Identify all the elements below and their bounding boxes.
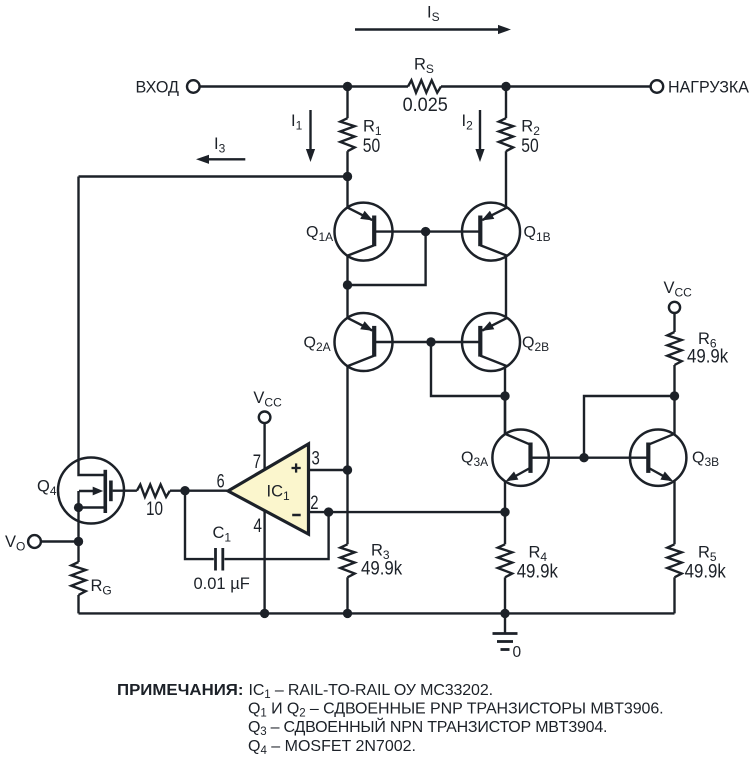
wire C1 left branch	[185, 491, 214, 559]
transistor Q4 gate bar	[109, 481, 113, 502]
node Q2B collector junction	[500, 391, 509, 400]
svg-text:0.01 µF: 0.01 µF	[194, 575, 250, 593]
wire Q2 bases	[374, 341, 481, 343]
transistor Q1B body	[462, 203, 520, 261]
wire input to RS	[200, 85, 408, 87]
op-amp plus sign	[292, 463, 301, 472]
wire R3 bottom lead	[346, 577, 348, 613]
wire Q2B to Q3A collector	[504, 396, 506, 435]
svg-text:НАГРУЗКА: НАГРУЗКА	[668, 78, 750, 97]
transistor Q2B body	[462, 313, 520, 371]
wire Q3A emitter to R4	[504, 512, 506, 544]
svg-text:49.9k: 49.9k	[687, 346, 729, 367]
transistor Q3B bar	[646, 443, 650, 473]
svg-text:3: 3	[312, 449, 320, 470]
transistor Q4 channel bar	[104, 470, 108, 513]
svg-text:I1: I1	[291, 112, 303, 133]
transistor Q4 source arrow	[79, 487, 103, 496]
terminal VCC (op-amp)	[259, 412, 271, 424]
node Q2 base junction	[426, 337, 435, 346]
svg-text:ПРИМЕЧАНИЯ:: ПРИМЕЧАНИЯ:	[117, 682, 244, 699]
svg-text:Q2B: Q2B	[522, 335, 549, 355]
wire R2 top lead	[505, 87, 507, 119]
svg-text:Q3A: Q3A	[461, 449, 488, 469]
resistor R3	[340, 544, 354, 577]
node Q1 base junction	[421, 227, 430, 236]
svg-text:49.9k: 49.9k	[517, 562, 559, 583]
svg-text:I2: I2	[462, 112, 474, 133]
wire R6 to Q3B collector	[673, 365, 675, 435]
transistor Q2B emitter	[482, 318, 508, 331]
transistor Q1B bar	[478, 216, 482, 247]
wire RG top lead	[77, 542, 79, 563]
wire Q2A collector down	[346, 365, 348, 544]
node R3 rail junction	[343, 609, 352, 618]
transistor Q4 source link	[79, 491, 106, 508]
wire Q1A collector down	[346, 255, 348, 286]
svg-text:Q1B: Q1B	[524, 224, 551, 244]
capacitor C1	[216, 548, 223, 571]
wire pin6 output	[170, 490, 229, 492]
resistor R2	[499, 118, 513, 151]
transistor Q1B emitter	[482, 207, 508, 220]
wire VO to RG	[41, 540, 79, 542]
transistor Q2A collector	[347, 356, 374, 367]
transistor Q1A emitter	[347, 207, 373, 220]
node I3-R1 junction	[343, 172, 352, 181]
svg-text:Q3 – СДВОЕННЫЙ NPN ТРАНЗИСТОР: Q3 – СДВОЕННЫЙ NPN ТРАНЗИСТОР MBT3904.	[248, 717, 607, 738]
node Q3A emitter junction	[500, 507, 509, 516]
transistor Q3A body	[492, 430, 548, 486]
svg-text:6: 6	[217, 472, 225, 493]
svg-text:VCC: VCC	[253, 389, 282, 410]
wire I3 horizontal	[79, 175, 348, 177]
op-amp IC1	[228, 444, 309, 534]
wire gate lead	[113, 490, 137, 492]
svg-text:4: 4	[253, 516, 262, 537]
svg-text:RS: RS	[414, 56, 434, 77]
svg-text:50: 50	[521, 136, 538, 157]
transistor Q1A body	[335, 203, 393, 261]
wire ground rail	[79, 612, 675, 614]
terminal NAGRUZKA (load)	[651, 80, 664, 93]
wire Q3 base to Q3B collector	[584, 396, 675, 458]
node C1 to pin2 junction	[324, 507, 333, 516]
node Q1A collector junction	[343, 280, 352, 289]
svg-text:Q3B: Q3B	[692, 449, 719, 469]
wire op-amp pin7 pin4 supply	[263, 423, 265, 613]
svg-text:VCC: VCC	[664, 279, 693, 300]
resistor R4	[498, 544, 512, 577]
svg-text:IS: IS	[427, 4, 440, 25]
svg-text:I3: I3	[214, 135, 226, 156]
svg-text:0.025: 0.025	[403, 95, 448, 116]
svg-text:C1: C1	[213, 524, 232, 545]
wire left branch down to Q4 drain	[79, 177, 106, 476]
wire Q2 base to Q2B collector loop	[431, 342, 505, 396]
current arrow I3	[196, 155, 245, 164]
svg-text:50: 50	[363, 136, 380, 157]
node output junction	[180, 486, 189, 495]
terminal VO	[28, 535, 41, 548]
resistor RG	[71, 562, 85, 595]
transistor Q3A bar	[528, 443, 532, 473]
wire C1 right branch	[224, 512, 328, 559]
terminal VCC (right)	[669, 302, 680, 313]
transistor Q2A body	[335, 313, 393, 371]
ground	[493, 613, 518, 649]
transistor Q2B bar	[478, 326, 482, 357]
wire R4 bottom lead	[504, 577, 506, 613]
node R6-Q3B junction	[670, 391, 679, 400]
resistor R5	[667, 544, 681, 577]
wire Q1B collector down	[505, 255, 507, 319]
svg-text:49.9k: 49.9k	[361, 559, 403, 580]
wire R1 top lead	[346, 87, 348, 119]
wire VCC to R6	[673, 313, 675, 332]
wire R2 bottom lead	[505, 151, 507, 208]
node RS-R2 junction	[501, 82, 510, 91]
svg-text:0: 0	[513, 644, 522, 661]
resistor R1	[340, 118, 354, 151]
transistor Q4 body	[58, 458, 124, 524]
wire Q4 source down	[77, 508, 79, 542]
node pin4 rail junction	[260, 609, 269, 618]
transistor Q1B collector	[480, 245, 507, 256]
svg-text:7: 7	[253, 452, 261, 473]
transistor Q1A collector	[347, 245, 374, 256]
op-amp minus sign	[292, 514, 301, 517]
wire Q1A emitter up	[346, 177, 348, 209]
current arrow I2	[475, 110, 484, 162]
wire R1 bottom lead	[346, 151, 348, 176]
wire RG bottom lead	[77, 595, 79, 613]
wire Q3A emitter down	[504, 481, 506, 513]
svg-text:RG: RG	[91, 577, 112, 598]
current arrow I1	[306, 110, 315, 162]
transistor Q2A emitter	[347, 318, 373, 331]
svg-text:Q2A: Q2A	[304, 335, 331, 355]
node Q3 base junction	[579, 453, 588, 462]
transistor Q3B collector	[650, 434, 675, 444]
svg-text:Q4 – MOSFET 2N7002.: Q4 – MOSFET 2N7002.	[248, 738, 416, 757]
wire Q2B collector down	[504, 365, 506, 435]
svg-text:VO: VO	[5, 533, 25, 554]
node Q4 source junction	[74, 503, 83, 512]
terminal VKHOD (input)	[187, 80, 200, 93]
wire Q2A emitter up	[346, 285, 348, 319]
svg-text:Q1 И Q2 – СДВОЕННЫЕ PNP ТРАНЗИ: Q1 И Q2 – СДВОЕННЫЕ PNP ТРАНЗИСТОРЫ MBT3…	[248, 701, 664, 720]
wire pin2 to Q3A emitter	[309, 511, 506, 513]
node input-R1 junction	[343, 82, 352, 91]
node VO junction	[74, 537, 83, 546]
transistor Q2B collector	[480, 356, 507, 367]
wire RS to load	[441, 85, 651, 87]
transistor Q3A emitter	[506, 468, 530, 481]
wire Q3 bases	[531, 457, 649, 459]
node R4 rail junction	[500, 609, 509, 618]
current arrow IS	[355, 25, 511, 34]
transistor Q2A bar	[372, 326, 376, 357]
svg-text:49.9k: 49.9k	[685, 562, 727, 583]
node pin3 junction	[343, 465, 352, 474]
svg-text:10: 10	[146, 499, 163, 520]
transistor Q1A bar	[372, 216, 376, 247]
wire pin3 to R3 column	[309, 469, 348, 471]
svg-text:Q4: Q4	[37, 478, 57, 499]
wire Q1 bases	[374, 230, 481, 232]
resistor R6	[667, 332, 681, 365]
svg-text:2: 2	[310, 493, 318, 514]
transistor Q3B body	[630, 430, 686, 486]
svg-text:ВХОД: ВХОД	[136, 78, 180, 97]
wire Q3B emitter down	[673, 481, 675, 545]
transistor Q3B emitter	[649, 468, 673, 481]
svg-text:Q1A: Q1A	[306, 224, 333, 244]
wire Q1 base to Q1A collector loop	[348, 232, 426, 285]
wire R5 bottom lead	[673, 577, 675, 613]
transistor Q3A collector	[505, 434, 529, 444]
resistor RS	[408, 80, 441, 92]
resistor 10 (gate)	[137, 485, 170, 497]
svg-text:IC1 – RAIL-TO-RAIL ОУ MC33202.: IC1 – RAIL-TO-RAIL ОУ MC33202.	[249, 682, 493, 701]
